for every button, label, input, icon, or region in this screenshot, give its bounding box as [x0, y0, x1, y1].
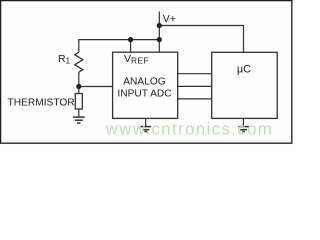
watermark www.cntronics.com: [0, 0, 1, 1]
wire ADC ground stub: [145, 118, 147, 126]
svg-text:INPUT ADC: INPUT ADC: [117, 88, 171, 99]
svg-text:THERMISTOR: THERMISTOR: [8, 97, 75, 108]
wire VREF stub: [130, 40, 132, 53]
svg-text:µC: µC: [237, 64, 251, 76]
wire thermistor bottom: [78, 109, 80, 117]
uC box U2: [212, 52, 278, 118]
ground (uC): [238, 127, 249, 132]
wire horizontal to R1 and VREF: [79, 40, 160, 53]
node junction dot at VREF rail: [157, 37, 162, 42]
border frame: [1, 1, 292, 144]
svg-text:ANALOG: ANALOG: [123, 76, 166, 87]
resistor R1: [75, 52, 83, 72]
wire ADC to uC bus 3: [178, 98, 212, 100]
wire R1 bottom to node: [78, 72, 80, 93]
svg-text:www.cntronics.com: www.cntronics.com: [105, 119, 273, 138]
wire uC ground stub: [242, 118, 244, 126]
node junction dot at V+ split: [157, 23, 162, 28]
wire V+ to uC: [159, 26, 243, 53]
node junction dot at VREF stub: [128, 37, 133, 42]
wire V+ vertical: [158, 12, 160, 53]
wire ADC to uC bus 2: [178, 85, 212, 87]
ground (thermistor): [73, 117, 85, 123]
svg-text:V+: V+: [163, 13, 176, 25]
svg-text:VREF: VREF: [124, 53, 149, 66]
wire ADC to uC bus 1: [178, 73, 212, 75]
thermistor body: [75, 94, 82, 110]
node junction dot thermistor top: [76, 84, 81, 89]
ground (ADC): [141, 127, 152, 132]
op-amp: ADC box: [113, 52, 178, 118]
wire node to ADC analog input: [79, 86, 113, 88]
